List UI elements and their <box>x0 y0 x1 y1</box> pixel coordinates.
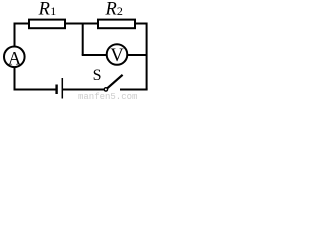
wire voltmeter to right vertical <box>127 54 146 56</box>
svg-text:R: R <box>38 0 50 20</box>
battery positive long plate <box>61 78 63 99</box>
wire right vertical <box>146 23 148 90</box>
wire left vertical (corner to ammeter top) <box>14 23 16 47</box>
svg-text:R: R <box>105 0 117 20</box>
voltmeter U: circle <box>107 44 128 65</box>
wire R2 to right edge <box>135 23 147 25</box>
wire top-left horizontal <box>14 23 29 25</box>
battery negative short plate <box>55 85 57 95</box>
resistor R2 <box>98 20 135 29</box>
svg-text:S: S <box>93 67 102 84</box>
wire bottom left to battery <box>14 89 56 91</box>
ammeter A: circle <box>4 47 25 68</box>
wire voltmeter branch horizontal left <box>82 54 106 56</box>
svg-text:A: A <box>8 49 22 69</box>
svg-text:2: 2 <box>117 4 123 18</box>
wire ammeter bottom vertical <box>14 67 16 90</box>
svg-text:1: 1 <box>50 4 56 18</box>
svg-text:manfen5.com: manfen5.com <box>78 92 137 99</box>
svg-text:V: V <box>110 46 124 66</box>
switch S pivot <box>104 88 107 91</box>
switch blade <box>107 75 122 88</box>
wire switch to right vertical <box>120 89 148 91</box>
wire battery to switch <box>63 89 104 91</box>
wire R1 to R2 <box>66 23 97 25</box>
wire voltmeter branch vertical <box>82 24 84 56</box>
resistor R1 <box>29 20 65 29</box>
